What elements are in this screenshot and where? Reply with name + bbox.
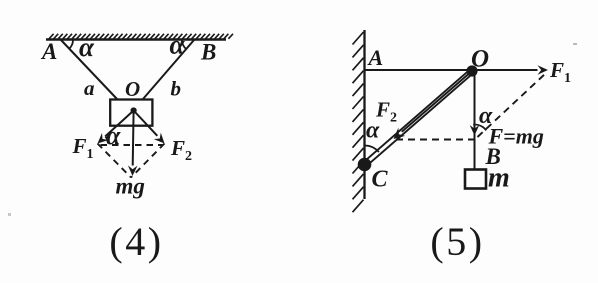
- svg-text:α: α: [79, 32, 95, 62]
- svg-text:(4): (4): [109, 219, 163, 264]
- svg-text:A: A: [40, 39, 57, 64]
- svg-text:A: A: [367, 45, 384, 70]
- svg-text:α: α: [106, 121, 121, 150]
- svg-text:(5): (5): [430, 219, 484, 264]
- svg-text:F: F: [72, 134, 87, 158]
- svg-text:2: 2: [390, 111, 397, 126]
- svg-text:F: F: [549, 58, 564, 82]
- svg-text:b: b: [171, 77, 182, 101]
- svg-text:O: O: [471, 46, 489, 73]
- svg-text:α: α: [170, 30, 186, 60]
- svg-text:1: 1: [87, 147, 94, 162]
- svg-text:F: F: [170, 136, 185, 160]
- svg-text:α: α: [366, 118, 380, 144]
- svg-text:B: B: [200, 40, 216, 65]
- svg-text:a: a: [84, 76, 95, 100]
- svg-text:C: C: [372, 167, 389, 193]
- svg-text:m: m: [488, 163, 510, 194]
- svg-text:1: 1: [564, 71, 571, 86]
- svg-text:2: 2: [185, 149, 192, 164]
- svg-text:mg: mg: [116, 174, 145, 199]
- svg-text:O: O: [125, 77, 140, 101]
